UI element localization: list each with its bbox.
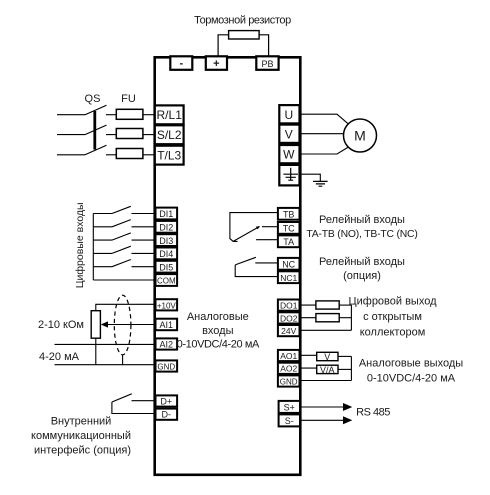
svg-text:GND: GND (280, 377, 298, 386)
terminal GND (analog in) (156, 360, 178, 371)
breaker QS pole 2: wire to fuse (106, 134, 116, 136)
svg-text:TB: TB (283, 210, 295, 220)
svg-text:Тормозной резистор: Тормозной резистор (194, 15, 291, 27)
breaker QS pole 2: entry wire (57, 134, 85, 136)
terminal 24V (278, 325, 300, 336)
DI3 switch: blade (112, 233, 131, 240)
wire: DO1 to resistor (300, 304, 316, 306)
terminal W (279, 145, 299, 163)
svg-text:RS 485: RS 485 (356, 407, 390, 419)
potentiometer 2-10 кОм (91, 311, 100, 339)
wire: S- RS485 arrow (300, 419, 345, 421)
motor M (344, 119, 377, 152)
wire: V/A meter to AO bus (338, 368, 351, 370)
terminal AI2 (156, 338, 178, 349)
breaker QS pole 3: entry wire (57, 154, 85, 156)
wire: V to motor (300, 133, 344, 135)
wire: AI1 wiper (107, 324, 155, 326)
svg-text:с открытым: с открытым (363, 311, 422, 323)
DI2 switch: left wire (93, 226, 112, 228)
relay NC wire (255, 262, 278, 264)
wire: AI2 (4-20 mA) (55, 343, 156, 345)
svg-text:TA: TA (283, 237, 294, 247)
wire: brake resistor right lead (259, 35, 269, 57)
label: Аналоговые выходы 0-10VDC/4-20 мА (359, 358, 463, 385)
label: Цифровой выход с открытым коллектором (348, 296, 437, 339)
svg-text:0-10VDC/4-20 мА: 0-10VDC/4-20 мА (367, 373, 456, 385)
S- arrowhead (343, 416, 352, 424)
terminal PB (256, 56, 278, 70)
svg-text:TC: TC (283, 224, 295, 234)
svg-text:D-: D- (162, 410, 172, 420)
resistor DO1 (316, 301, 339, 309)
wire: fuse1 to R/L1 (143, 114, 155, 116)
terminal PE (earth) (279, 165, 299, 186)
breaker QS pole 1: entry wire (57, 114, 85, 116)
svg-text:24V: 24V (281, 326, 296, 336)
svg-text:DI2: DI2 (159, 223, 173, 233)
terminal DO2 (278, 312, 300, 323)
D- switch wire (112, 402, 155, 414)
terminal TB (278, 208, 300, 220)
wiper arrowhead (101, 321, 108, 327)
DI5 wire to terminal (132, 266, 156, 268)
wire: brake resistor left lead (218, 35, 229, 57)
fuse FU pole 3 (116, 149, 143, 159)
svg-text:V: V (285, 127, 293, 141)
svg-text:S-: S- (285, 416, 294, 426)
svg-text:FU: FU (121, 93, 136, 105)
wire: V meter to AO bus (338, 355, 351, 357)
DI4 switch: blade (112, 246, 131, 253)
terminal TC (278, 222, 300, 234)
wire: DO2 to resistor (300, 317, 316, 319)
svg-text:4-20 мА: 4-20 мА (39, 351, 80, 363)
DI5 switch: blade (112, 260, 131, 267)
terminal TA (278, 235, 300, 247)
svg-text:Релейный входы: Релейный входы (319, 214, 405, 226)
AO bus vertical (350, 356, 352, 380)
terminal AI1 (156, 319, 178, 331)
breaker QS link bar (93, 111, 96, 150)
D+ switch wire (132, 400, 156, 402)
DO bus vertical (350, 305, 352, 330)
terminal DI3 (156, 234, 178, 246)
svg-text:входы: входы (202, 325, 234, 337)
svg-text:AO2: AO2 (280, 364, 297, 374)
earth ground symbol (313, 181, 328, 186)
relay TC wire (262, 226, 278, 228)
svg-text:0-10VDC/4-20 мА: 0-10VDC/4-20 мА (177, 339, 260, 351)
svg-text:Аналоговые: Аналоговые (187, 311, 249, 323)
wire: S+ RS485 arrow (300, 406, 345, 408)
wire: AO1 to V meter (300, 354, 317, 356)
terminal DI4 (156, 248, 178, 260)
breaker QS pole 3: wire to fuse (106, 154, 116, 156)
shield drain wire (122, 355, 124, 365)
svg-text:(опция): (опция) (343, 270, 381, 282)
inverter body (155, 57, 301, 475)
svg-text:коллектором: коллектором (360, 327, 426, 339)
svg-text:2-10 кОм: 2-10 кОм (38, 319, 84, 331)
terminal "-" (170, 56, 192, 70)
DI3 wire to terminal (132, 239, 156, 241)
svg-text:+10V: +10V (157, 301, 177, 310)
DI2 wire to terminal (132, 226, 156, 228)
svg-text:NC1: NC1 (280, 273, 297, 283)
DI1 switch: blade (112, 206, 131, 213)
wire: AO2 to V/A meter (300, 367, 317, 369)
terminal DI1 (156, 208, 178, 220)
wire: PE to earth (300, 174, 321, 181)
wire: GND analog (55, 364, 156, 366)
fuse FU pole 2 (116, 129, 143, 139)
svg-text:T/L3: T/L3 (157, 149, 181, 163)
breaker QS pole 3: blade (85, 145, 107, 155)
terminal DO1 (278, 300, 300, 311)
svg-text:R/L1: R/L1 (157, 108, 183, 122)
svg-text:DO2: DO2 (280, 313, 298, 323)
svg-text:V: V (324, 352, 330, 362)
relay blade TB-TC (233, 227, 259, 242)
svg-text:коммуникационный: коммуникационный (31, 430, 131, 442)
digital inputs common bus (92, 214, 94, 281)
svg-text:Цифровой выход: Цифровой выход (348, 296, 437, 308)
terminal T/L3 (155, 146, 184, 165)
wire: 24V to bus (300, 329, 352, 331)
svg-text:Релейный входы: Релейный входы (319, 256, 405, 268)
terminal AO2 (278, 363, 300, 374)
svg-text:NC: NC (282, 260, 295, 270)
svg-text:DI3: DI3 (159, 236, 173, 246)
svg-text:W: W (283, 148, 295, 162)
terminal DI2 (156, 221, 178, 233)
terminal R/L1 (155, 105, 184, 124)
wire: fuse3 to T/L3 (143, 154, 155, 156)
label: Релейный входы TA-TB (NO), TB-TC (NC) (306, 214, 417, 240)
svg-text:интерфейс (опция): интерфейс (опция) (34, 445, 131, 457)
svg-text:Внутренний: Внутренний (51, 415, 112, 427)
label: Внутренний коммуникационный интерфейс (опция) (31, 415, 131, 456)
breaker QS pole 1: blade (85, 105, 107, 115)
wire: fuse2 to S/L2 (143, 134, 155, 136)
relay blade arrowhead (256, 226, 260, 229)
svg-text:TA-TB (NO), TB-TC (NC): TA-TB (NO), TB-TC (NC) (306, 229, 417, 240)
terminal V (279, 125, 299, 143)
DI3 switch: left wire (93, 239, 112, 241)
relay TB wire (230, 213, 278, 242)
terminal "+" (206, 56, 227, 70)
S+ arrowhead (343, 403, 352, 411)
svg-text:DI5: DI5 (159, 262, 173, 272)
shield ellipse (dashed) (114, 295, 131, 355)
terminal COM (156, 274, 178, 286)
svg-text:+: + (213, 58, 219, 70)
svg-text:DI4: DI4 (159, 249, 173, 259)
DI4 switch: left wire (93, 252, 112, 254)
wire: U to motor (300, 114, 349, 124)
svg-text:S/L2: S/L2 (157, 128, 182, 142)
svg-text:AI1: AI1 (160, 320, 174, 330)
wire: potentiometer bottom (95, 338, 97, 365)
svg-text:M: M (354, 128, 366, 144)
svg-text:COM: COM (157, 277, 176, 286)
brake resistor (Тормозной резистор) (229, 31, 260, 39)
terminal S/L2 (155, 125, 184, 144)
svg-text:PB: PB (261, 59, 273, 69)
D+ switch blade (112, 394, 132, 402)
relay NC blade (235, 257, 256, 265)
svg-text:DO1: DO1 (280, 301, 298, 311)
COM wire to terminal (93, 279, 155, 281)
wire: W to motor (300, 147, 349, 154)
svg-text:D+: D+ (160, 397, 172, 407)
DI1 switch: left wire (93, 213, 112, 215)
terminal S- (279, 414, 300, 426)
V meter box (317, 352, 338, 362)
label: Релейный входы (опция) (319, 256, 405, 282)
resistor DO2 (316, 314, 339, 322)
terminal GND (analog out) (278, 375, 300, 386)
breaker QS pole 1: wire to fuse (106, 114, 116, 116)
svg-text:AI2: AI2 (160, 340, 174, 350)
svg-text:Цифровые входы: Цифровые входы (74, 202, 86, 288)
relay TA wire (256, 239, 278, 241)
label: Аналоговые входы 0-10VDC/4-20 мА (177, 311, 260, 350)
svg-text:Аналоговые выходы: Аналоговые выходы (359, 358, 463, 370)
breaker QS pole 2: blade (85, 125, 107, 135)
terminal NC (278, 258, 300, 270)
svg-text:GND: GND (157, 362, 175, 371)
relay NC1 wire (235, 265, 278, 277)
terminal AO1 (278, 350, 300, 361)
DI5 switch: left wire (93, 266, 112, 268)
svg-text:QS: QS (85, 93, 101, 105)
terminal U (279, 105, 299, 123)
svg-text:DI1: DI1 (159, 209, 173, 219)
DI2 switch: blade (112, 220, 131, 227)
DI1 wire to terminal (132, 213, 156, 215)
V/A meter box (317, 365, 338, 375)
DI4 wire to terminal (132, 252, 156, 254)
svg-text:AO1: AO1 (280, 351, 297, 361)
wire: DO1 resistor to bus (339, 304, 351, 306)
wire: GND to AO bus (300, 380, 352, 382)
terminal D- (156, 409, 178, 420)
terminal DI5 (156, 261, 178, 273)
svg-text:U: U (284, 108, 293, 122)
terminal NC1 (278, 271, 300, 283)
terminal D+ (156, 395, 178, 406)
wire: DO2 resistor to bus (339, 317, 351, 319)
terminal +10V (156, 299, 178, 310)
svg-text:V/A: V/A (320, 365, 335, 375)
svg-text:-: - (179, 58, 183, 70)
svg-text:S+: S+ (284, 403, 295, 413)
wire: +10V to potentiometer top (96, 304, 155, 310)
fuse FU pole 1 (116, 109, 143, 119)
terminal S+ (279, 401, 300, 413)
